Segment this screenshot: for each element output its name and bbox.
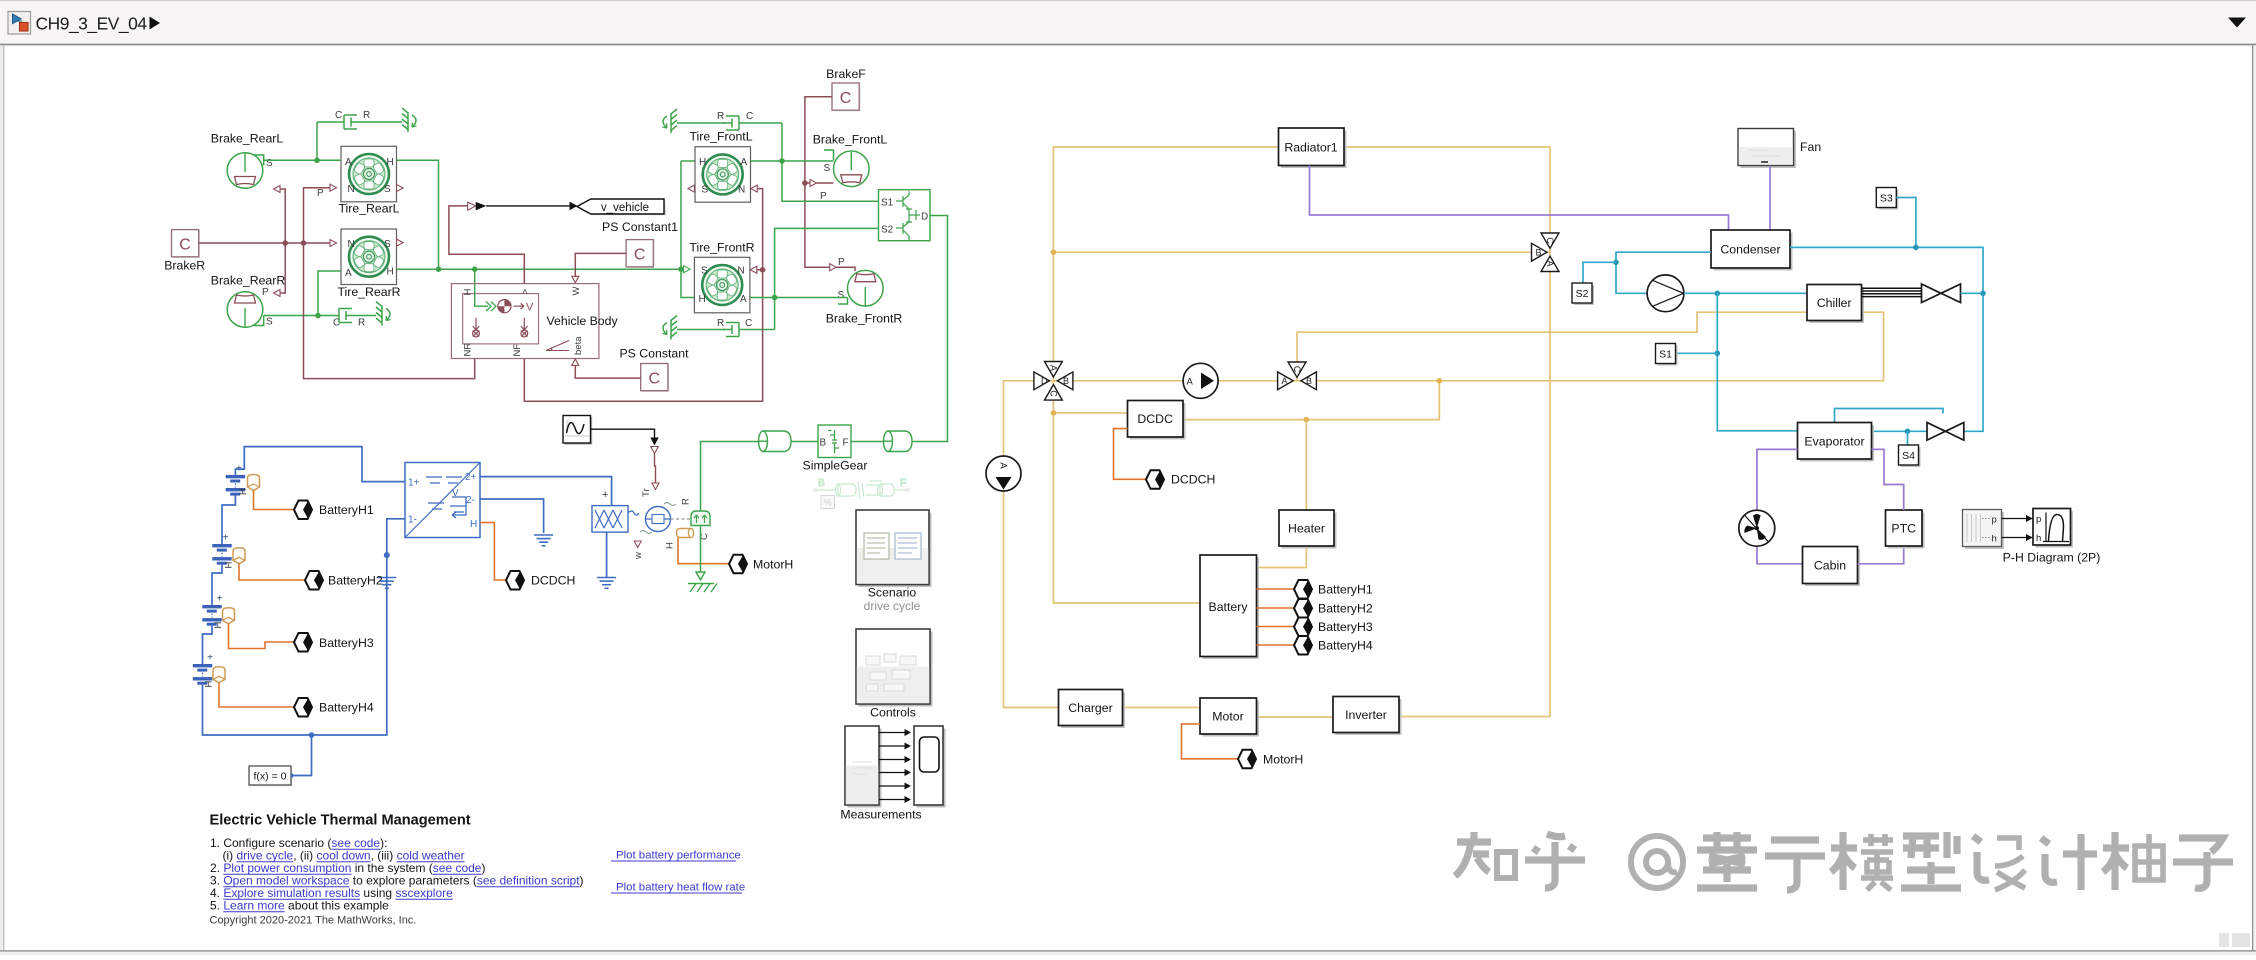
block SimpleGear [803, 425, 868, 473]
svg-text:MotorH: MotorH [753, 558, 793, 572]
svg-text:Battery: Battery [1209, 600, 1249, 614]
svg-text:CH9_3_EV_04: CH9_3_EV_04 [36, 14, 148, 34]
svg-text:F: F [900, 478, 906, 489]
svg-text:Electric Vehicle Thermal Manag: Electric Vehicle Thermal Management [210, 813, 471, 829]
svg-text:v_vehicle: v_vehicle [601, 202, 649, 214]
connection label BatteryH3 [229, 624, 374, 652]
wire cyan condenser right loop down to expansion valve 2 [1790, 247, 1983, 431]
connection label BatteryH2 [239, 564, 383, 590]
connection label BatteryH2 (pack) [1294, 599, 1373, 618]
wire cyan condenser left to compressor [1616, 252, 1711, 293]
valve three-way upper (B-C-A) [1532, 233, 1560, 272]
svg-text:R: R [717, 111, 724, 122]
svg-text:P: P [820, 191, 827, 202]
svg-text:Condenser: Condenser [1720, 243, 1780, 257]
svg-text:BatteryH1: BatteryH1 [319, 503, 374, 517]
svg-text:H: H [387, 267, 394, 278]
motor shaft coupler (green) [681, 498, 711, 540]
wire cyan S2 tap [1583, 262, 1616, 283]
node maroon junction (762.6,269.8) [760, 267, 766, 273]
svg-text:P: P [838, 257, 845, 268]
svg-text:Radiator1: Radiator1 [1284, 141, 1337, 155]
svg-text:Brake_FrontL: Brake_FrontL [813, 133, 888, 147]
wire green rear H bus to front tires and vehicle body H [397, 160, 695, 297]
svg-text:Tire_FrontL: Tire_FrontL [689, 130, 752, 144]
柚 [2103, 832, 2163, 890]
wire signal p/h arrows [2002, 519, 2027, 538]
block Condenser [1711, 230, 1793, 271]
svg-text:P: P [317, 188, 324, 199]
svg-text:Measurements: Measurements [840, 808, 921, 822]
svg-text:S: S [824, 163, 831, 174]
node green junction (774.6,297.5) [772, 295, 778, 301]
block Motor [1200, 698, 1259, 737]
svg-text:S3: S3 [1880, 193, 1893, 205]
svg-text:Cabin: Cabin [1814, 559, 1846, 573]
subsystem Measurements [840, 726, 945, 822]
wire maroon Tr drive [655, 454, 656, 484]
svg-text:S: S [838, 290, 845, 301]
svg-text:beta: beta [573, 336, 584, 355]
scope P-H Diagram (2P) [2003, 509, 2101, 565]
annotation list [210, 836, 584, 913]
brake Brake_FrontR [838, 257, 884, 306]
svg-text:H: H [387, 157, 394, 168]
svg-text:B: B [1306, 376, 1312, 386]
brake Brake_RearL [227, 153, 324, 199]
svg-text:R: R [681, 498, 692, 505]
svg-text:SimpleGear: SimpleGear [803, 459, 868, 473]
svg-text:Inverter: Inverter [1345, 708, 1387, 722]
svg-text:A: A [741, 157, 748, 168]
wire maroon NR net: VehicleBody.NR down-left-up to tire N ports [304, 188, 475, 379]
node cyan junction (1983,293.3) [1980, 291, 1986, 297]
svg-text:P: P [262, 287, 269, 298]
goto tag v_vehicle [577, 199, 666, 215]
svg-text:N: N [348, 239, 355, 250]
svg-text:B: B [818, 478, 825, 489]
svg-text:+: + [207, 653, 213, 664]
svg-text:Motor: Motor [1212, 710, 1243, 724]
svg-text:Scenario: Scenario [868, 586, 917, 600]
svg-text:BatteryH3: BatteryH3 [1318, 620, 1373, 634]
node yellow junction (1439.3,380.8) [1437, 378, 1443, 384]
wire blue motor minus to ground [606, 532, 608, 577]
基 [1697, 832, 1757, 888]
svg-text:P-H Diagram (2P): P-H Diagram (2P) [2003, 551, 2101, 565]
breadcrumb title CH9_3_EV_04 [36, 14, 161, 34]
svg-text:drive cycle: drive cycle [864, 599, 921, 613]
node maroon junction (303.5,243) [301, 240, 307, 246]
wire yellow 3way C up over to chiller left port [1297, 312, 1807, 362]
scope feed P-H diagram source block [1963, 510, 2005, 550]
svg-text:S4: S4 [1902, 450, 1915, 462]
svg-text:w: w [633, 552, 644, 560]
ground electrical reference (battery bus) [377, 578, 396, 589]
svg-text:BatteryH2: BatteryH2 [1318, 602, 1373, 616]
node blue junction near ground [384, 552, 390, 558]
ground electrical reference (motor) [597, 578, 616, 589]
svg-text:Brake_RearR: Brake_RearR [211, 274, 286, 288]
svg-text:Copyright 2020-2021 The MathWo: Copyright 2020-2021 The MathWorks, Inc. [210, 915, 417, 927]
node green junction (317,160.3) [314, 158, 320, 164]
arrow P Brake_FrontL [810, 180, 817, 187]
svg-text:S2: S2 [1576, 288, 1589, 300]
wire orange motor H to MotorH [678, 538, 729, 564]
block Vehicle Body [451, 284, 618, 359]
svg-text:H: H [699, 157, 706, 168]
乎 [1525, 834, 1585, 888]
pump coolant (A, right arrow) [1183, 363, 1218, 398]
svg-text:Heater: Heater [1288, 522, 1325, 536]
connection label MotorH (thermal side) [1238, 750, 1303, 769]
converter PS-Simulink [468, 202, 476, 210]
svg-text:V: V [452, 488, 459, 499]
svg-text:PS Constant: PS Constant [619, 347, 689, 361]
node cyan junction (1717.3,293.3) [1715, 291, 1721, 297]
svg-text:1-: 1- [408, 515, 417, 526]
node yellow junction (1053.4,412.9) [1051, 410, 1057, 416]
svg-text:S1: S1 [881, 198, 894, 209]
svg-text:D: D [921, 212, 928, 223]
wire yellow pass-through segments at valves [1035, 233, 1551, 400]
wire cyan S3 tap [1896, 198, 1916, 248]
wire green rear-right axle: BrakeRearR.S - dot - damper, up to TireRearR.A [264, 271, 341, 316]
svg-text:D: D [1041, 376, 1048, 386]
svg-text:C: C [335, 110, 342, 121]
svg-text:S: S [702, 185, 709, 196]
svg-text:C: C [746, 111, 753, 122]
svg-text:PTC: PTC [1891, 522, 1916, 536]
battery cell 4 [193, 653, 225, 688]
subsystem Controls [856, 629, 933, 720]
svg-text:Plot battery performance: Plot battery performance [616, 850, 741, 862]
block DCDC (thermal) [1128, 401, 1186, 440]
node cyan junction S4 tee [1905, 429, 1911, 435]
svg-text:2+: 2+ [465, 472, 477, 483]
block Radiator1 [1279, 128, 1347, 168]
svg-text:NR: NR [463, 343, 474, 357]
block Tire_FrontL [688, 147, 757, 203]
block Chiller [1807, 285, 1864, 324]
brake Brake_FrontL [820, 150, 869, 202]
connection label DCDCH [506, 571, 575, 590]
wire yellow Motor to Inverter [1257, 716, 1334, 718]
wire yellow pump2 to Charger [1004, 491, 1059, 708]
svg-text:DCDCH: DCDCH [531, 574, 575, 588]
block Charger [1059, 690, 1126, 729]
connection label BatteryH4 (pack) [1294, 636, 1373, 655]
svg-text:H: H [699, 294, 706, 305]
svg-text:B: B [1063, 376, 1069, 386]
node green junctions on H bus [436, 266, 442, 272]
dropdown arrow top right [2228, 18, 2246, 28]
svg-text:Fan: Fan [1800, 140, 1821, 154]
svg-text:MotorH: MotorH [1263, 752, 1303, 766]
svg-text:Charger: Charger [1068, 701, 1112, 715]
source block BrakeR (PS constant C) [164, 230, 205, 273]
svg-text:%: % [823, 498, 832, 509]
wire cyan S4 stub [1907, 431, 1909, 445]
block Cabin [1803, 547, 1861, 587]
svg-text:C: C [1292, 366, 1302, 373]
svg-text:5. Learn more about this examp: 5. Learn more about this example [210, 899, 389, 913]
svg-text:Brake_RearL: Brake_RearL [211, 132, 284, 146]
wire yellow pump1 / 3way valve row to chiller right port [1072, 312, 1884, 381]
计 [2041, 834, 2097, 890]
svg-text:R: R [363, 110, 370, 121]
wire yellow valve A down to inverter return [1399, 272, 1550, 717]
wire maroon NF net: VehicleBody.NF right and up to front N ports [524, 189, 762, 402]
svg-text:S: S [266, 317, 273, 328]
svg-text:N: N [738, 266, 745, 277]
wire green D net: S1S2.D to gear train [912, 216, 948, 442]
svg-text:+: + [602, 489, 608, 501]
svg-text:Tire_RearR: Tire_RearR [337, 285, 400, 299]
battery cell 3 [202, 594, 234, 629]
source block PS Constant1 [602, 220, 678, 268]
wire blue DCDC 2+ to motor [480, 477, 612, 506]
source block sine wave [563, 416, 592, 445]
block Battery [1200, 555, 1259, 659]
valve four-way [1034, 362, 1073, 401]
svg-text:Tr: Tr [641, 488, 652, 497]
svg-text:Vehicle Body: Vehicle Body [547, 314, 619, 328]
svg-text:S: S [384, 239, 391, 250]
svg-text:C: C [840, 90, 852, 107]
svg-text:BatteryH4: BatteryH4 [1318, 639, 1373, 653]
connection label MotorH [729, 555, 793, 574]
svg-text:BatteryH1: BatteryH1 [1318, 583, 1373, 597]
svg-text:H: H [665, 542, 676, 549]
wire yellow Charger to Motor [1123, 707, 1201, 709]
svg-text:S: S [384, 184, 391, 195]
svg-text:DCDC: DCDC [1137, 412, 1173, 426]
svg-text:BrakeF: BrakeF [826, 67, 866, 81]
svg-text:f(x) = 0: f(x) = 0 [254, 771, 287, 783]
node cyan junction (1915.9,247.4) [1913, 245, 1919, 251]
于 [1765, 840, 1825, 890]
svg-text:BatteryH3: BatteryH3 [319, 636, 374, 650]
wire green motor R to gear [701, 442, 760, 512]
damper front-right (wall R-C) [663, 316, 775, 340]
wire maroon BrakeF net to front brake P ports [805, 97, 855, 271]
wire red DCDC to DCDCH [1114, 429, 1147, 480]
svg-text:Plot battery heat flow rate: Plot battery heat flow rate [616, 882, 745, 894]
faint corner mark [2219, 933, 2250, 947]
svg-text:N: N [348, 184, 355, 195]
svg-text:C: C [1545, 237, 1555, 244]
block S4 [1899, 445, 1921, 467]
block Tire_FrontR [694, 257, 756, 313]
wire red battery H taps [1257, 589, 1295, 645]
wire blue battery series chain [203, 447, 406, 735]
inertia cylinder right [884, 431, 913, 452]
wire cyan evaporator right to expansion valve 2 [1872, 430, 1928, 432]
svg-text:BrakeR: BrakeR [164, 259, 205, 273]
arrow P Brake_RearL [274, 186, 281, 193]
@ [1631, 836, 1683, 888]
svg-text:C: C [649, 371, 661, 388]
svg-text:H: H [204, 681, 215, 688]
block Heater [1279, 510, 1337, 549]
damper rear-left (C-R to wall) [317, 108, 417, 132]
wire green S1 net: TireFrontL.A - damper - BrakeFrontL.S - S1 [751, 123, 879, 201]
svg-text:2-: 2- [466, 495, 475, 506]
wire blue DCDC 2- to ground [480, 499, 544, 533]
brake Brake_RearR [227, 287, 273, 328]
wire maroon PS Constant to VehicleBody.beta [575, 366, 640, 379]
svg-text:+: + [217, 594, 223, 605]
svg-text:H: H [213, 622, 224, 629]
thermal cylinder motor H port [665, 529, 694, 550]
svg-text:p: p [2036, 514, 2041, 525]
valve three-way (A-B-C) [1278, 362, 1317, 390]
arrow P Brake_FrontR [830, 264, 837, 271]
arrow into Tire_FrontR.S [684, 266, 691, 273]
wire yellow heater drop to battery [1257, 420, 1307, 568]
svg-text:Brake_FrontR: Brake_FrontR [826, 312, 903, 326]
block S1S2 IGBT pair (brake control) [879, 190, 931, 241]
wire purple PTC to evaporator right [1872, 449, 1904, 510]
compressor [1647, 275, 1684, 312]
block PTC [1886, 510, 1925, 549]
svg-text:F: F [843, 438, 849, 449]
svg-text:Tire_RearL: Tire_RearL [338, 202, 399, 216]
svg-text:A: A [740, 294, 747, 305]
block S3 [1876, 188, 1898, 210]
port w indicator [634, 541, 641, 548]
node green junction (782,161) [779, 158, 785, 164]
svg-text:h: h [1992, 534, 1997, 545]
svg-text:Tire_FrontR: Tire_FrontR [689, 241, 754, 255]
block Evaporator [1798, 423, 1875, 462]
block S1 [1656, 344, 1678, 366]
hose chiller to expansion valve 1 [1862, 288, 1922, 296]
svg-text:A: A [1282, 376, 1288, 386]
svg-text:A: A [1187, 377, 1194, 388]
svg-text:+: + [223, 533, 229, 544]
型 [1901, 832, 1961, 888]
svg-text:C: C [1048, 390, 1058, 397]
block DC-DC converter [405, 463, 480, 538]
svg-text:p: p [1992, 515, 1997, 526]
wire green gear train couplings [791, 441, 884, 443]
wire purple evaporator air loop left through blower [1757, 449, 1803, 563]
wire green S2 net: TireFrontR.A - damper - BrakeFrontR.S - S2 [750, 228, 879, 329]
wire purple cabin to PTC [1858, 546, 1904, 564]
wire cyan compressor to chiller [1684, 292, 1807, 294]
wire cyan S1 tap [1676, 352, 1717, 354]
watermark 知乎 @基于模型设计柚子 [1455, 832, 2233, 890]
connection label BatteryH4 [219, 683, 374, 717]
wire yellow bypass at y=252 [1053, 251, 1532, 253]
wire green coupler C to rotational reference [700, 526, 702, 574]
wire maroon v_vehicle: VehicleBody.> up to converter [449, 206, 524, 284]
node maroon junction (285.2,243) [282, 240, 288, 246]
svg-text:S: S [701, 266, 708, 277]
svg-text:NF: NF [512, 344, 523, 357]
node blue junction bottom bus [309, 732, 315, 738]
battery cell 1 [226, 464, 260, 496]
node cyan junction S1 tee [1715, 351, 1721, 357]
svg-text:S1: S1 [1659, 349, 1672, 361]
wire cyan evaporator top stub (open) [1835, 409, 1944, 423]
svg-text:H: H [470, 519, 477, 530]
svg-text:PS Constant1: PS Constant1 [602, 220, 678, 234]
svg-text:h: h [2036, 533, 2041, 544]
node yellow junction (1306.3,419.6) [1304, 417, 1310, 423]
svg-text:Controls: Controls [870, 706, 916, 720]
source block BrakeF (PS constant C) [826, 67, 866, 111]
arrow P Brake_RearR [274, 290, 281, 297]
node maroon junction (804.9,183) [802, 180, 808, 186]
ground mechanical rotational reference [688, 572, 717, 592]
svg-text:V: V [526, 302, 534, 314]
模 [1831, 832, 1893, 890]
wire yellow 4way D to pump2 [1004, 381, 1035, 457]
node cyan junction S2 tee [1613, 260, 1619, 266]
子 [2173, 838, 2233, 888]
wire purple fan to condenser [1769, 166, 1771, 231]
wire orange DCDC H to DCDCH [480, 523, 506, 580]
valve expansion 1 [1922, 284, 1961, 303]
connection label BatteryH3 (pack) [1294, 618, 1373, 637]
svg-text:BatteryH2: BatteryH2 [328, 574, 383, 588]
ghost SimpleGear (faded variant) [814, 478, 910, 509]
svg-text:R: R [717, 318, 724, 329]
svg-text:A: A [1545, 260, 1555, 266]
breadcrumb model icon [8, 12, 31, 35]
damper front-left (wall R-C) [663, 109, 783, 133]
inertia cylinder left [759, 431, 792, 452]
svg-text:B: B [820, 438, 827, 449]
valve expansion 2 [1927, 423, 1964, 441]
wire yellow 4way C down to DCDC and Battery [1053, 400, 1200, 603]
battery cell 2 [212, 533, 245, 569]
svg-text:C: C [179, 237, 191, 254]
wire purple radiator air to condenser [1310, 166, 1729, 231]
block Tire_RearL [338, 146, 403, 215]
source block PS Constant [619, 347, 689, 392]
subsystem Scenario [856, 510, 932, 613]
wire cyan refrigerant drop to evaporator [1717, 293, 1797, 431]
node yellow junction (1053.4,252.2) [1051, 249, 1057, 255]
pump cabin loop (A, down arrow) [986, 456, 1021, 491]
svg-text:>: > [520, 289, 531, 295]
svg-text:A: A [345, 268, 352, 279]
wire yellow radiator right down to valve C [1344, 147, 1550, 233]
connection label DCDCH (thermal side) [1146, 470, 1215, 489]
damper rear-right (C-R to wall) [318, 302, 391, 329]
svg-text:BatteryH4: BatteryH4 [319, 701, 374, 715]
wire maroon PS Constant1 to VehicleBody.W [575, 253, 626, 276]
知 [1455, 832, 1515, 878]
connection label BatteryH1 (pack) [1294, 580, 1373, 599]
blower fan [1739, 510, 1775, 546]
svg-text:N: N [738, 185, 745, 196]
svg-text:A: A [345, 157, 352, 168]
source block f(x)=0 [249, 735, 312, 786]
wire yellow DCDC right to heater tee and pump loop [1183, 381, 1439, 420]
wire green rear-left axle: BrakeRearL.S - dot - TireRearL.A, up to damper [264, 122, 341, 160]
wire black sine to converter [591, 429, 655, 437]
svg-text:1+: 1+ [408, 478, 420, 489]
block Tire_RearR [337, 229, 403, 299]
svg-text:W: W [571, 287, 582, 296]
motor commutator [640, 503, 691, 534]
svg-text:H: H [463, 289, 474, 296]
